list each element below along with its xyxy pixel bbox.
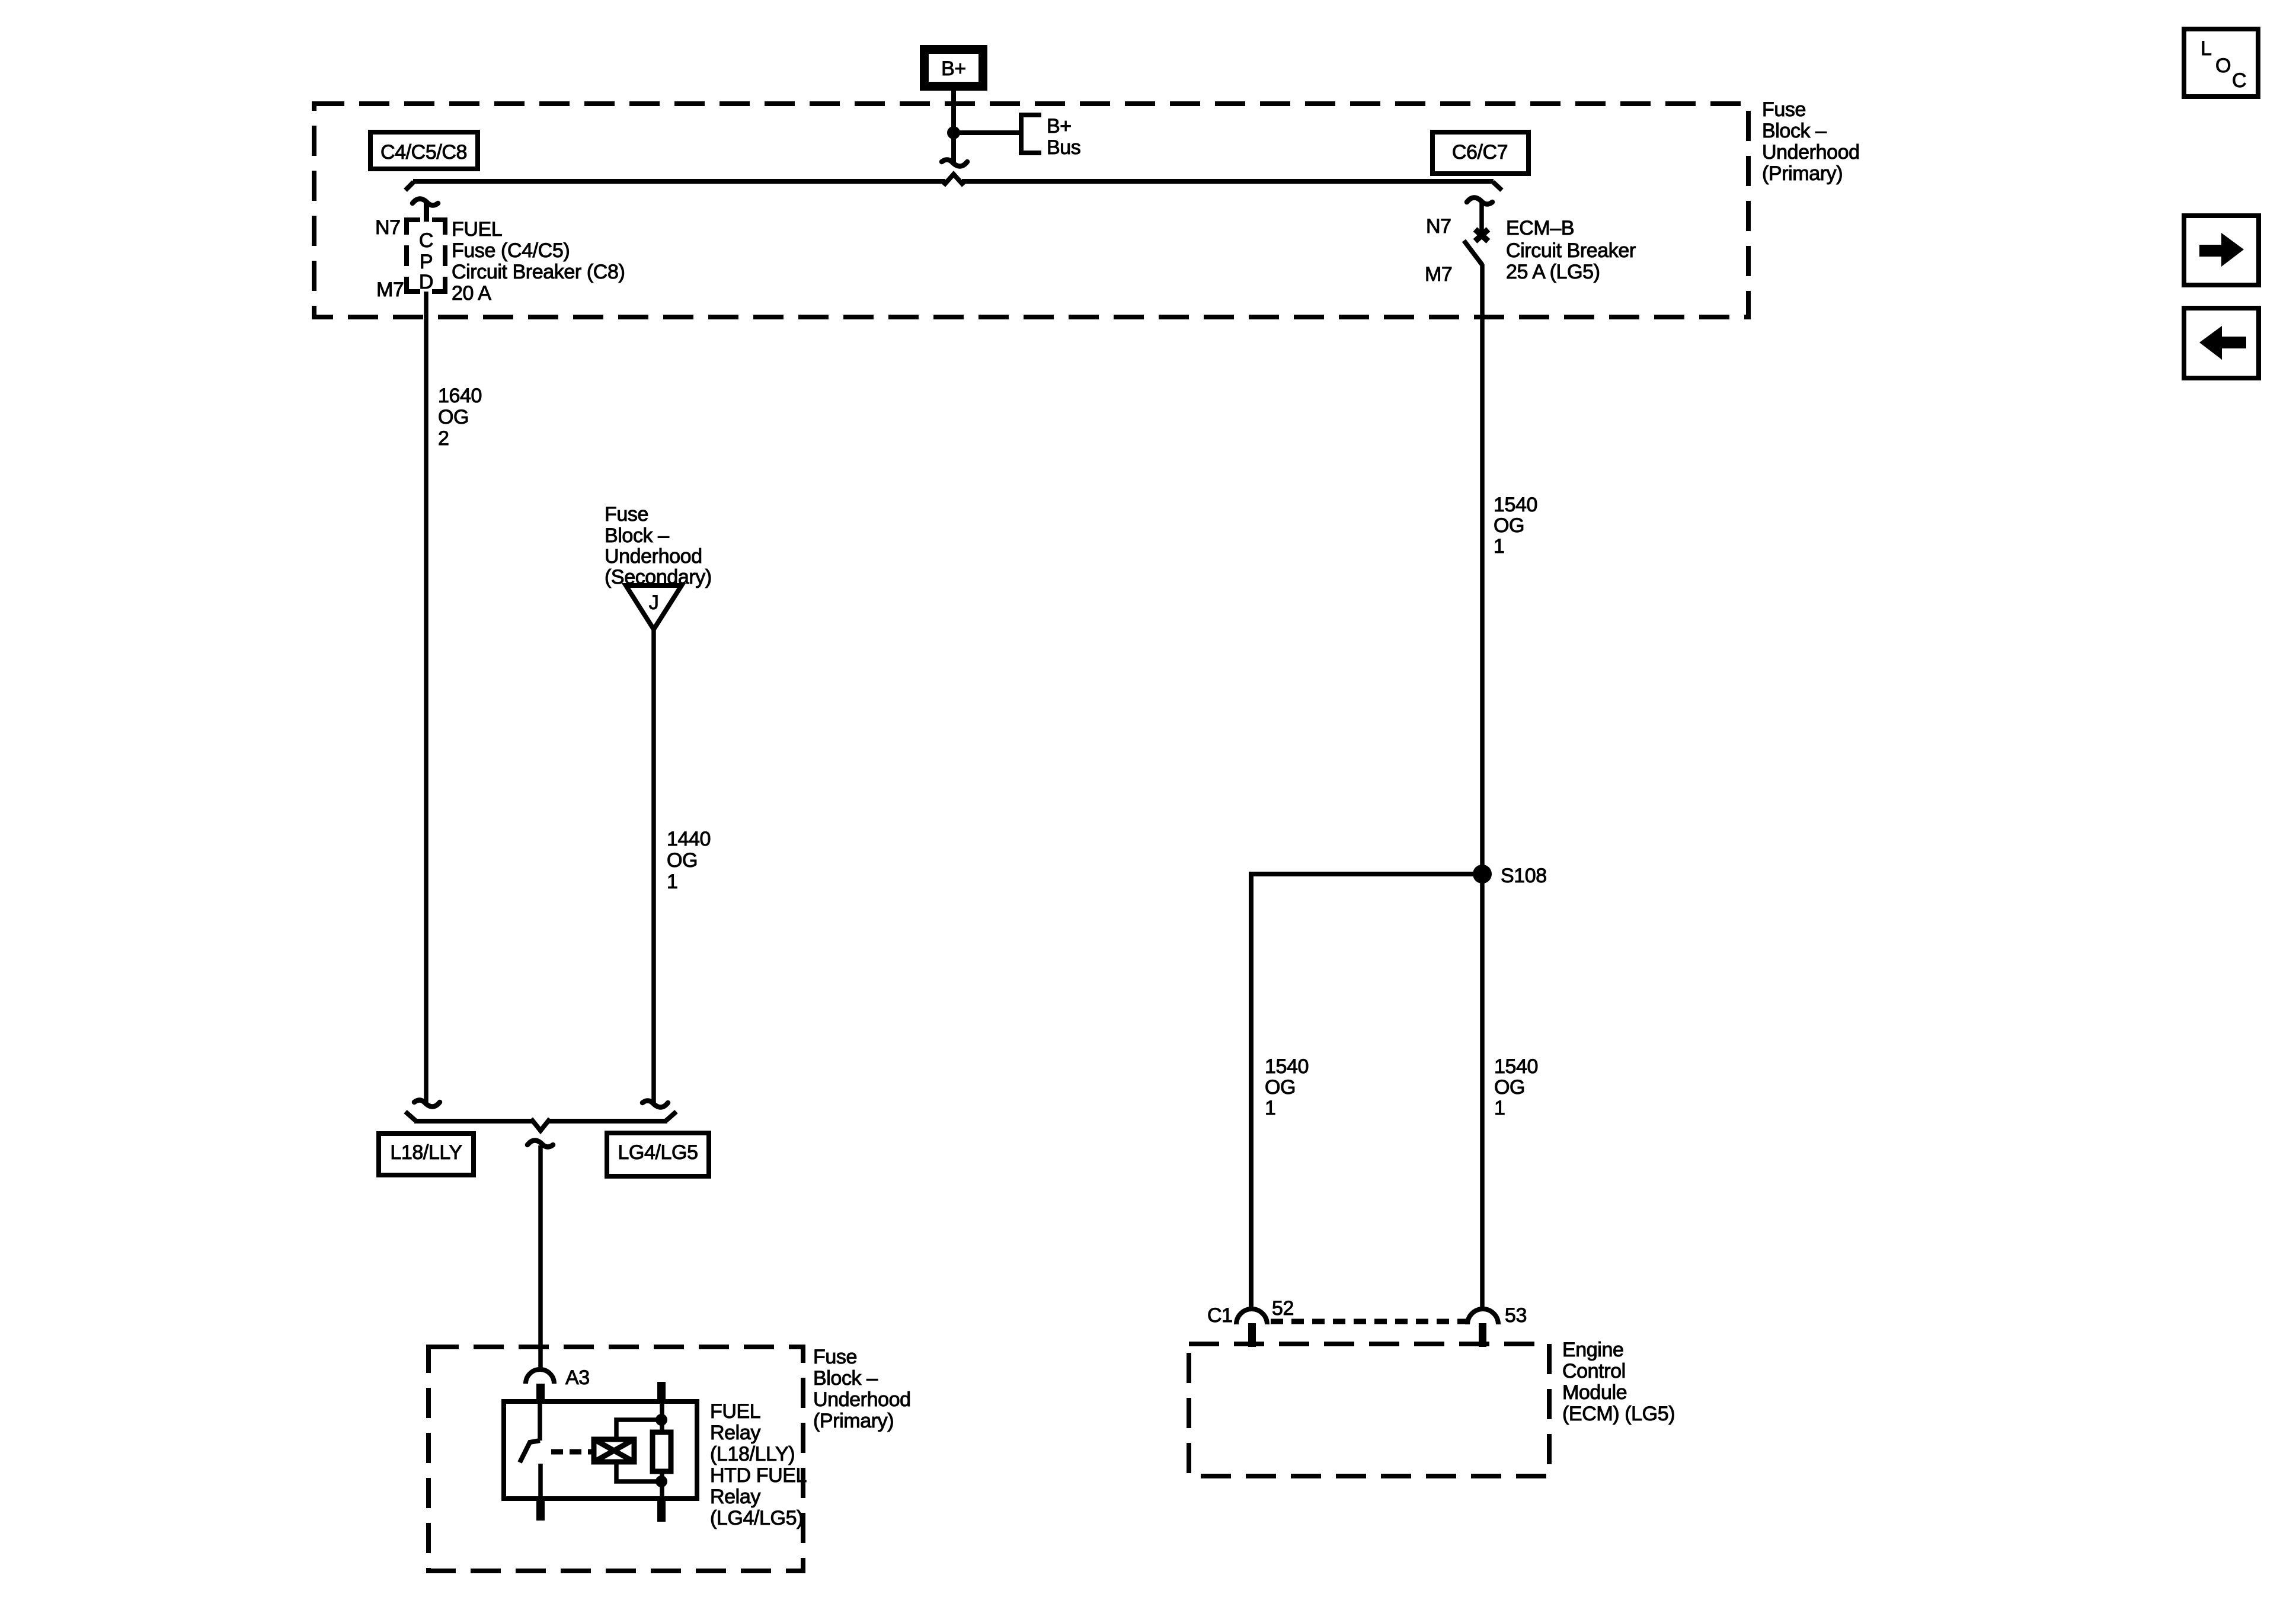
- LG4/LG5 connector label box: [607, 1133, 709, 1176]
- fuse block underhood primary (top) label: [1762, 98, 1860, 185]
- svg-text:A3: A3: [565, 1366, 590, 1389]
- svg-text:FUEL: FUEL: [710, 1400, 760, 1423]
- svg-text:25 A (LG5): 25 A (LG5): [1506, 261, 1600, 283]
- svg-text:Underhood: Underhood: [1762, 141, 1860, 164]
- wire 1440 OG from J down: [651, 629, 656, 1105]
- svg-text:C: C: [419, 229, 433, 252]
- svg-text:C: C: [2232, 69, 2246, 92]
- main bus wire (right segment): [962, 179, 1494, 184]
- coil bottom wire: [616, 1462, 658, 1481]
- J triangle symbol: [626, 585, 682, 629]
- svg-text:Engine: Engine: [1562, 1339, 1623, 1361]
- ECM-B breaker label: [1506, 217, 1636, 283]
- relay label: [710, 1400, 807, 1529]
- break symbol end of 1440 wire: [642, 1101, 668, 1108]
- svg-text:FUEL: FUEL: [452, 218, 502, 241]
- fuse block underhood primary (top) dashed box: [314, 104, 1748, 317]
- chevron connection on bus: [944, 174, 964, 185]
- svg-text:1540: 1540: [1494, 1055, 1538, 1078]
- junction dot top: [655, 1414, 667, 1426]
- ECM-B circuit breaker: [1464, 203, 1488, 265]
- svg-text:S108: S108: [1501, 865, 1547, 887]
- relay linkage dashed: [551, 1449, 594, 1455]
- svg-text:ECM–B: ECM–B: [1506, 217, 1574, 239]
- break symbol above ECM-B breaker: [1467, 198, 1492, 204]
- svg-text:D: D: [419, 271, 433, 293]
- svg-text:N7: N7: [375, 216, 401, 239]
- bracket chevron down: [531, 1119, 550, 1131]
- svg-text:(Primary): (Primary): [813, 1410, 894, 1432]
- C6/C7 connector label box: [1432, 132, 1528, 174]
- svg-text:Fuse: Fuse: [1762, 98, 1806, 121]
- LOC reference box: [2184, 29, 2258, 97]
- svg-text:Block –: Block –: [1762, 120, 1827, 142]
- relay switch: [520, 1401, 541, 1499]
- relay pin stub bottom-left: [536, 1499, 545, 1521]
- wire label 1440 OG 1: [667, 828, 711, 893]
- svg-text:B+: B+: [1047, 115, 1072, 137]
- coil top wire: [616, 1420, 658, 1439]
- node junction dot B+ bus: [947, 126, 960, 139]
- svg-text:(Primary): (Primary): [1762, 162, 1843, 185]
- connector pin 52 arc: [1236, 1309, 1267, 1324]
- relay resistor branch: [653, 1401, 671, 1499]
- svg-text:L: L: [2201, 37, 2212, 60]
- arrow box right: [2184, 216, 2259, 285]
- svg-text:M7: M7: [1425, 263, 1452, 286]
- svg-text:Circuit Breaker: Circuit Breaker: [1506, 239, 1636, 262]
- svg-text:(L18/LLY): (L18/LLY): [710, 1443, 795, 1465]
- bus right end hook: [1493, 182, 1502, 190]
- svg-text:C4/C5/C8: C4/C5/C8: [380, 141, 467, 164]
- wire label 1540 OG 1 (upper): [1494, 494, 1537, 558]
- svg-text:OG: OG: [438, 406, 469, 428]
- svg-text:Relay: Relay: [710, 1486, 760, 1508]
- svg-text:N7: N7: [1426, 215, 1451, 238]
- pin stub 52: [1248, 1323, 1256, 1347]
- fuse block underhood primary (bottom) dashed box: [428, 1347, 803, 1571]
- relay pin stub bottom-right: [657, 1499, 666, 1522]
- svg-text:C1: C1: [1207, 1304, 1233, 1327]
- FUEL fuse / circuit breaker CPD box: [407, 220, 445, 292]
- connector pin 53 arc: [1467, 1309, 1498, 1324]
- main bus wire (left segment): [413, 179, 945, 184]
- svg-text:52: 52: [1272, 1297, 1294, 1320]
- svg-text:1540: 1540: [1494, 494, 1537, 516]
- svg-text:(LG4/LG5): (LG4/LG5): [710, 1507, 803, 1529]
- wire label 1540 OG 1 (lower left): [1265, 1055, 1309, 1119]
- fuse block underhood primary (bottom) label: [813, 1346, 911, 1432]
- splice S108: [1473, 865, 1492, 884]
- bus left end hook: [405, 182, 414, 190]
- svg-text:Control: Control: [1562, 1360, 1626, 1382]
- arrow box left: [2184, 308, 2259, 378]
- svg-text:(ECM) (LG5): (ECM) (LG5): [1562, 1403, 1675, 1425]
- wire from B+ down: [951, 91, 956, 164]
- svg-text:Block –: Block –: [813, 1367, 878, 1390]
- svg-text:OG: OG: [1494, 1076, 1525, 1099]
- CPD letters: [419, 229, 433, 293]
- svg-text:2: 2: [438, 427, 449, 450]
- svg-text:Module: Module: [1562, 1381, 1627, 1404]
- svg-text:Block –: Block –: [605, 524, 669, 547]
- svg-text:Underhood: Underhood: [605, 545, 702, 568]
- svg-text:B+: B+: [941, 57, 966, 80]
- wire label 1640 OG 2: [438, 385, 482, 450]
- break symbol below merge: [527, 1141, 553, 1147]
- svg-text:HTD FUEL: HTD FUEL: [710, 1464, 807, 1487]
- svg-text:1440: 1440: [667, 828, 711, 850]
- svg-text:1540: 1540: [1265, 1055, 1309, 1078]
- svg-text:1: 1: [1494, 535, 1505, 558]
- wire 1640 OG from fuse down: [424, 292, 428, 1105]
- relay coil box with X: [594, 1439, 634, 1462]
- svg-text:Relay: Relay: [710, 1422, 760, 1444]
- junction dot bottom: [655, 1475, 667, 1487]
- connector pin A3 arc: [526, 1369, 554, 1384]
- svg-text:Fuse (C4/C5): Fuse (C4/C5): [452, 239, 570, 262]
- svg-text:20 A: 20 A: [452, 282, 491, 305]
- wire down to relay: [538, 1145, 543, 1369]
- FUEL fuse label: [452, 218, 625, 305]
- svg-text:53: 53: [1505, 1304, 1527, 1327]
- svg-text:Bus: Bus: [1047, 136, 1080, 159]
- pin stub A3: [536, 1384, 545, 1402]
- L18/LLY connector label box: [379, 1134, 474, 1175]
- svg-text:Circuit Breaker (C8): Circuit Breaker (C8): [452, 261, 625, 283]
- svg-text:C6/C7: C6/C7: [1452, 141, 1508, 164]
- svg-text:J: J: [649, 591, 659, 614]
- svg-text:1: 1: [1494, 1097, 1505, 1119]
- wire from splice to pin 52: [1251, 874, 1482, 1310]
- svg-text:OG: OG: [1494, 514, 1524, 537]
- net label B+ Bus: [1047, 115, 1080, 159]
- B+ power feed box: [920, 45, 987, 91]
- bracket left hook: [405, 1112, 415, 1121]
- svg-text:P: P: [420, 251, 433, 273]
- relay pin stub top-right: [657, 1382, 666, 1402]
- svg-text:LG4/LG5: LG4/LG5: [618, 1141, 698, 1164]
- engine control module dashed box: [1189, 1344, 1549, 1476]
- wire 1540 OG down from breaker: [1480, 264, 1485, 1310]
- svg-text:L18/LLY: L18/LLY: [390, 1141, 462, 1164]
- fuse block underhood secondary label: [605, 503, 712, 588]
- wire to B+ Bus tap: [954, 130, 1021, 135]
- svg-text:M7: M7: [376, 279, 404, 301]
- B+ Bus bracket: [1021, 115, 1041, 153]
- svg-text:OG: OG: [667, 849, 698, 872]
- svg-text:OG: OG: [1265, 1076, 1296, 1099]
- FUEL relay box: [504, 1401, 697, 1499]
- break symbol above FUEL fuse: [412, 199, 438, 206]
- C4/C5/C8 connector label box: [370, 132, 478, 169]
- svg-text:1640: 1640: [438, 385, 482, 407]
- stub into fuse: [424, 203, 429, 222]
- svg-text:1: 1: [1265, 1097, 1276, 1119]
- svg-text:1: 1: [667, 870, 678, 893]
- svg-text:Fuse: Fuse: [813, 1346, 857, 1368]
- svg-text:Underhood: Underhood: [813, 1388, 911, 1411]
- pin stub 53: [1479, 1323, 1486, 1347]
- break symbol below B+: [942, 160, 967, 167]
- dashed connector tie line: [1271, 1319, 1466, 1324]
- wire label 1540 OG 1 (lower right): [1494, 1055, 1538, 1119]
- svg-text:Fuse: Fuse: [605, 503, 648, 526]
- break symbol end of 1640 wire: [414, 1100, 440, 1107]
- svg-text:O: O: [2215, 55, 2231, 77]
- bracket right hook: [666, 1112, 676, 1121]
- merge bracket wire: [414, 1119, 533, 1124]
- ECM label: [1562, 1339, 1675, 1425]
